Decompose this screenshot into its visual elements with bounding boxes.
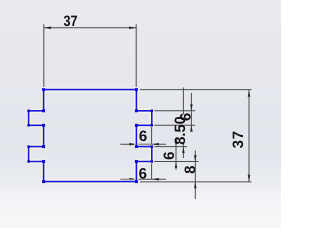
svg-text:37: 37 (230, 131, 247, 149)
svg-text:37: 37 (64, 13, 78, 30)
svg-text:6: 6 (161, 152, 178, 160)
svg-text:8.50: 8.50 (172, 116, 189, 145)
svg-text:8: 8 (182, 166, 199, 174)
svg-text:6: 6 (139, 128, 147, 145)
svg-text:6: 6 (139, 166, 147, 183)
